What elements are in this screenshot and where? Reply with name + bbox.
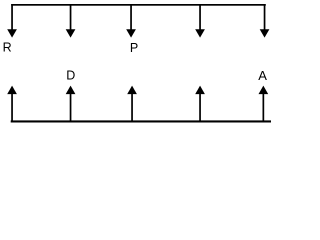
svg-text:D: D [66, 69, 75, 83]
svg-text:R: R [3, 41, 12, 55]
svg-text:A: A [258, 68, 267, 83]
svg-text:P: P [130, 41, 138, 55]
